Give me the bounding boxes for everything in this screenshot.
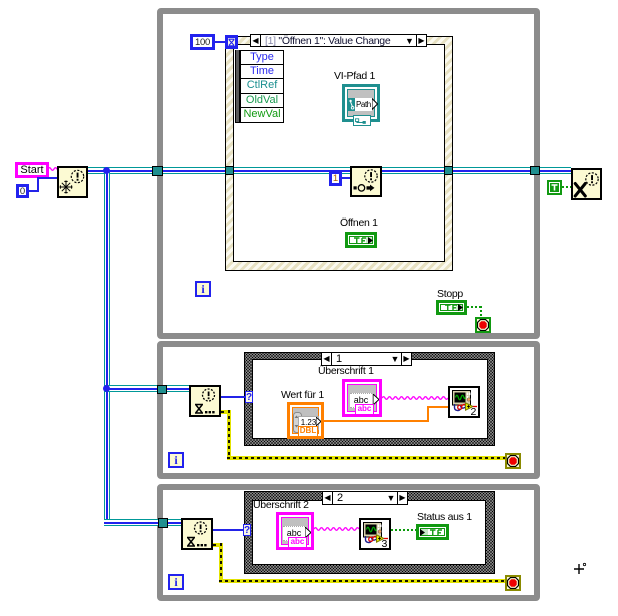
wire: node to dyn event terminal ES2 (blue) [221, 396, 245, 398]
node: Wait for User Event (W3) [181, 518, 213, 550]
event structure ES1 interior [233, 44, 445, 262]
node: Generate User Event [350, 166, 382, 197]
label Wert fuer 1 [281, 390, 324, 401]
node: Wait for User Event (W2) [189, 385, 221, 417]
wire: 100 to timeout [215, 41, 225, 43]
subVI 3 (scope icon) [359, 518, 391, 550]
event structure ES2 interior [252, 359, 488, 439]
iteration terminal i (W1) [195, 281, 211, 297]
path indicator VI-Pfad 1 [342, 84, 380, 122]
wire: row2 branch horizontal [104, 385, 189, 392]
wire: 0 to create node [29, 190, 39, 192]
dynamic event terminal ES3 [243, 524, 251, 536]
boolean control Oeffnen 1 [345, 232, 377, 248]
wire: string to subVI3 (magenta wavy) [314, 526, 359, 532]
wire: T to destroy node (dotted green) [562, 186, 571, 188]
path glyph bottom tab [353, 115, 371, 126]
loop condition terminal W2 (stop sign, error wired) [505, 453, 521, 469]
event structure ES3 interior [252, 500, 486, 565]
label Ueberschrift 1 [318, 366, 374, 377]
wire: 1 to generate node [342, 177, 350, 179]
wire: Start to create node (string-like pink squiggle) [48, 166, 58, 172]
tunnel on ES1 right border [444, 166, 453, 175]
boolean constant T [547, 180, 562, 195]
boolean control Stopp [436, 300, 467, 315]
timeout terminal (hourglass) [225, 35, 238, 49]
loop condition terminal W3 (stop sign, error wired) [505, 575, 521, 591]
string control terminal Ueberschrift 1 [342, 379, 382, 417]
while loop W3 (bottom) [157, 484, 540, 601]
wire: row3 branch horizontal [104, 519, 181, 526]
wire: node to dyn event terminal ES3 (blue) [213, 529, 243, 531]
event structure ES2 border [244, 352, 495, 446]
wire: subVI3 to Status (dotted green) [391, 529, 416, 531]
event structure ES1 border [225, 36, 453, 271]
label VI-Pfad 1 [334, 71, 375, 82]
numeric control terminal Wert fuer 1 (DBL) [287, 402, 324, 439]
numeric constant 1 [329, 171, 342, 186]
tunnel on W1 right border [530, 166, 540, 175]
error wire W2: node out [221, 410, 231, 414]
label Status aus 1 [417, 512, 472, 523]
event structure ES3 border [244, 491, 495, 574]
output arrow of VI-Pfad 1 [372, 98, 378, 110]
string control terminal Ueberschrift 2 [276, 512, 314, 550]
subVI 2 (scope icon) [448, 386, 480, 418]
boolean control terminal Start [15, 162, 49, 178]
wire: string to subVI2 (magenta wavy) [382, 395, 448, 401]
ES2 selector bar [321, 352, 412, 366]
while loop W1 (top) [157, 8, 540, 339]
error wire W3: node out [213, 543, 223, 547]
iteration terminal i (W2) [168, 452, 184, 468]
tunnel on W1 left border [152, 166, 163, 176]
wire: user event refnum main horizontal [88, 167, 571, 174]
wire: Stopp to loop condition (dotted green) [467, 306, 482, 308]
label Ueberschrift 2 [253, 500, 309, 511]
boolean indicator Status aus 1 [416, 524, 449, 540]
junction dot J1 [103, 167, 110, 174]
tunnel on ES1 left border [225, 166, 234, 175]
svg-text:3: 3 [382, 538, 388, 548]
numeric constant 100 [190, 34, 215, 50]
iteration terminal i (W3) [168, 574, 184, 590]
ES3 selector bar [322, 491, 408, 505]
label Oeffnen 1 [340, 218, 378, 229]
label Stopp [437, 289, 463, 300]
event data node: gray spine [235, 50, 240, 123]
loop condition terminal W1 (stop sign) [475, 317, 491, 333]
dynamic event terminal ES2 [245, 391, 253, 403]
ES1 selector bar [250, 34, 427, 47]
tunnel on W3 left border [158, 518, 168, 528]
while loop W2 (middle) [157, 341, 540, 479]
tunnel on W2 left border [157, 385, 167, 394]
mouse cursor [572, 561, 588, 577]
wire: numeric to subVI2 (orange) [324, 420, 429, 422]
node: Destroy User Event [571, 168, 602, 200]
numeric constant 0 [16, 184, 29, 198]
svg-text:2: 2 [471, 406, 477, 416]
junction dot J2 [103, 385, 110, 392]
event data node: fields [240, 50, 284, 123]
wire: user event refnum vertical branch [104, 170, 110, 523]
node: Create User Event [57, 166, 88, 198]
